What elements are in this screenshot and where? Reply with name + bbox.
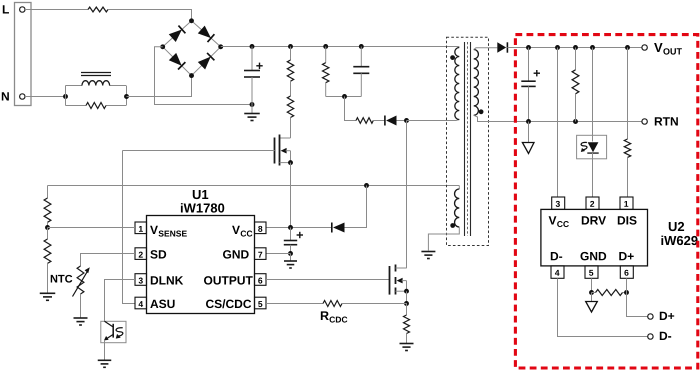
terminal VOUT (642, 45, 647, 50)
resistor R1 (startup upper) (290, 47, 292, 61)
node choke left (63, 94, 68, 99)
label DRV (582, 216, 606, 224)
ground (secondary, open triangle) (522, 143, 534, 154)
label VOUT (654, 43, 662, 52)
label D- (U2) (551, 252, 562, 260)
node output cap (526, 45, 531, 50)
pin 3 box (U2) (552, 197, 565, 209)
primary phase dot (450, 55, 455, 60)
resistor across choke (86, 103, 106, 109)
bridge nodes (189, 18, 194, 23)
ground (aux) (421, 252, 435, 259)
label D+ (660, 312, 674, 320)
label ASU (150, 300, 174, 309)
input connector J1 (15, 3, 32, 106)
node drain (404, 118, 409, 123)
label VCC (232, 226, 240, 234)
label L (3, 5, 9, 13)
capacitor C2 (snubber) (360, 47, 362, 67)
transformer secondary winding (474, 50, 479, 116)
wire opto emitter to ground (104, 340, 106, 360)
capacitor C1 (bulk, polarized) (251, 47, 253, 71)
wire pin5 GND (591, 278, 593, 292)
diode D5 (clamp) (386, 116, 396, 126)
optocoupler U3 phototransistor (101, 321, 126, 342)
wire VOUT to opto LED (592, 48, 594, 142)
op-amp U2 (controller iW629) body (541, 209, 648, 266)
wire N to choke (25, 96, 66, 98)
bridge diode D4 (bottom-right) (198, 53, 215, 70)
node bulk cap (250, 44, 255, 49)
wire gate node to ASU pin (123, 151, 136, 304)
wire between startup resistors (290, 81, 292, 96)
bridge diode D1 (left-top) (169, 26, 186, 42)
wire snubber to clamp (345, 97, 357, 121)
wire secondary bottom to RTN (474, 115, 642, 121)
bridge diode D2 (top-right) (198, 26, 215, 42)
wire secondary top (474, 48, 498, 50)
ground (U1 GND) (284, 261, 297, 268)
node loadR/RTN (573, 119, 578, 124)
pin 5 box (U2) (585, 266, 598, 278)
bridge rectifier BR1 edges (163, 21, 221, 76)
label D+ (U2) (619, 252, 633, 260)
wire tap to pin1 (48, 227, 136, 229)
terminal D+ (648, 314, 653, 319)
pin 4 box (U2) (551, 266, 564, 278)
label CS/CDC (206, 299, 251, 308)
wire LED to DRV pin2 (592, 153, 594, 197)
pin 2 box (135, 248, 147, 260)
ground (NTC) (74, 318, 88, 325)
resistor R8 (preload) (575, 48, 577, 70)
node C4/RTN (526, 119, 531, 124)
wire Q1 gate (123, 150, 275, 152)
label GND (223, 250, 249, 259)
resistor R3 (snubber) (325, 47, 327, 63)
pin 2 box (U2) (586, 197, 599, 209)
node load R (573, 45, 578, 50)
resistor R4 (clamp) (356, 118, 373, 124)
pin 6 box (U2) (620, 266, 633, 278)
fuse F1 (88, 7, 108, 12)
node VCC diode tap (364, 183, 369, 188)
node pin5/resistor (589, 290, 594, 295)
resistor R9 (DIS pullup) (627, 48, 629, 140)
wire fuse to bridge top (108, 10, 192, 21)
optocoupler U3 LED (577, 135, 607, 159)
choke core lines (81, 72, 111, 74)
wire pin3 DLNK to opto (105, 280, 136, 322)
node snubber C (359, 44, 364, 49)
transformer T1 dashed box (447, 37, 489, 245)
wire VOUT rail (507, 47, 642, 49)
label VSENSE (150, 226, 158, 234)
wire drain vertical (406, 121, 408, 269)
wire pin2 SD to NTC (81, 254, 136, 267)
resistor R5 (divider upper) (47, 186, 49, 199)
label D- (660, 332, 671, 340)
pin 8 box (255, 222, 267, 234)
wire HV bus (221, 46, 460, 48)
label SD (150, 250, 166, 259)
node VCC (288, 225, 293, 230)
node startup divider (288, 44, 293, 49)
wire pin7 GND (266, 253, 291, 255)
pin 6 box (255, 274, 267, 286)
wire aux bottom (428, 227, 459, 251)
label OUTPUT (204, 276, 253, 285)
resistor R6 (divider lower) (47, 228, 49, 240)
wire pin5 CS/CDC (266, 303, 323, 305)
resistor R7 (current sense) (406, 303, 408, 315)
wire Q1 source to VCC node (290, 163, 292, 228)
label VCC (U2) (549, 216, 557, 224)
secondary phase dot (479, 109, 484, 114)
node snubber junction (342, 94, 347, 99)
pin 7 box (255, 248, 267, 260)
node choke right (124, 94, 129, 99)
resistor R10 (GND-D+) (596, 290, 623, 296)
label N (2, 92, 9, 100)
choke loop wires (65, 86, 67, 106)
wire pin6 OUTPUT to gate (266, 279, 390, 281)
label GND (U2) (580, 252, 606, 261)
secondary side boundary (red dashed box) (515, 35, 697, 368)
terminal D- (648, 334, 653, 339)
capacitor C4 (output, polarized) (528, 48, 530, 82)
wire VOUT to U2 VCC pin3 (557, 48, 559, 198)
wire primary bottom (407, 120, 460, 121)
inductor L1 (choke winding) (82, 81, 110, 86)
transformer core (464, 42, 466, 236)
op-amp U1 (controller iW1780) body (147, 216, 255, 314)
wire snubber bottom (326, 96, 362, 98)
wire bridge negative to primary ground (155, 47, 253, 105)
label iW629 (661, 236, 697, 246)
node opto LED (590, 45, 595, 50)
wire pin6 to D+ (627, 278, 648, 316)
node DIS R (625, 45, 630, 50)
ground (divider) (40, 293, 56, 300)
pin 1 box (U2) (620, 197, 633, 209)
label U2 (669, 222, 684, 231)
node snubber R (323, 44, 328, 49)
bridge diode D3 (left-bottom) (169, 53, 186, 70)
terminal RTN (642, 119, 647, 124)
diode D7 (output rectifier) (497, 42, 506, 52)
node Q1 source (288, 160, 293, 165)
resistor RCDC (323, 301, 342, 307)
transformer primary winding (455, 48, 460, 120)
node pin6/resistor (624, 290, 629, 295)
label RCDC (321, 311, 329, 320)
label DIS (618, 216, 637, 225)
wire to ground (251, 105, 253, 114)
pin 3 box (135, 274, 147, 286)
label U1 (193, 190, 208, 199)
wire diode to aux tap (345, 186, 367, 228)
transformer aux winding (458, 186, 460, 190)
transistor Q2 (main MOSFET) (389, 266, 391, 295)
pin 1 box (135, 222, 147, 234)
thermistor NTC (77, 266, 84, 294)
wire pin4 to D- (558, 278, 648, 336)
node Q2 source (404, 289, 409, 294)
node CS junction (404, 301, 409, 306)
ground (sense) (400, 344, 414, 351)
node VCC2 (555, 45, 560, 50)
wire L to fuse (25, 9, 88, 11)
pin 5 box (255, 297, 267, 309)
transistor Q1 (startup MOSFET) (290, 118, 292, 139)
label DLNK (151, 276, 183, 284)
capacitor C3 (VCC, polarized) (290, 228, 292, 241)
diode D6 (VCC rectifier) (333, 223, 345, 233)
wire pin8 VCC (266, 227, 332, 229)
label RTN (655, 117, 678, 125)
resistor R2 (startup lower) (287, 96, 293, 118)
wire aux sense line (48, 185, 460, 187)
node bulk cap bottom (250, 102, 255, 107)
label iW1780 (181, 203, 224, 213)
wire choke to bridge bottom (127, 76, 192, 97)
node divider tap (45, 225, 50, 230)
ground (opto) (98, 360, 112, 367)
node C3 bottom (288, 251, 293, 256)
ground (primary bus) (244, 114, 260, 121)
label NTC (51, 275, 73, 283)
ground (U2, open triangle) (591, 293, 593, 302)
aux phase dot (450, 223, 455, 228)
pin 4 box (135, 297, 147, 309)
